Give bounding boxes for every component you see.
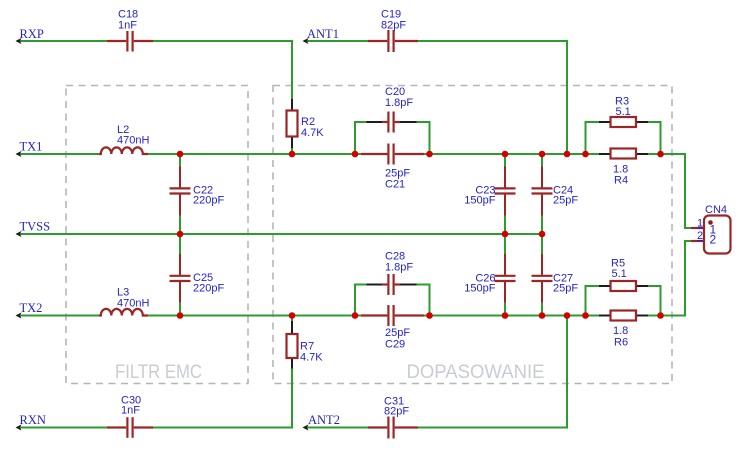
connector CN4 xyxy=(691,216,731,254)
dashed box FILTR EMC xyxy=(66,86,248,384)
net label ANT1 xyxy=(307,27,339,41)
svg-text:DOPASOWANIE: DOPASOWANIE xyxy=(407,362,545,383)
net arrow TVSS xyxy=(16,231,22,237)
svg-text:2: 2 xyxy=(710,233,717,247)
capacitor C24 xyxy=(532,167,553,216)
capacitor C18 xyxy=(107,31,153,52)
svg-text:FILTR EMC: FILTR EMC xyxy=(115,362,202,383)
label C25 value xyxy=(193,272,224,295)
svg-text:1.8: 1.8 xyxy=(613,325,628,337)
svg-text:4.7K: 4.7K xyxy=(301,127,324,139)
net arrow RXN xyxy=(16,424,22,430)
junction TX1 at C23 xyxy=(502,151,509,158)
net label TX2 xyxy=(20,301,43,315)
label C19 value xyxy=(381,9,406,32)
label C21 value xyxy=(385,168,410,191)
svg-text:150pF: 150pF xyxy=(464,283,495,295)
junction TX1 at ANT1 xyxy=(564,151,571,158)
svg-text:TX2: TX2 xyxy=(20,301,43,315)
wire R5 branch xyxy=(586,286,661,316)
junction TX1 at R3 R4 left xyxy=(582,151,589,158)
label C26 value xyxy=(464,273,495,295)
label C24 value xyxy=(553,185,578,207)
wire TVSS rail xyxy=(17,233,542,235)
wire RXN to R7 vertical xyxy=(291,316,293,429)
label L2 value xyxy=(117,124,149,147)
junction TX1 at C22 xyxy=(177,151,184,158)
net label ANT2 xyxy=(308,413,340,427)
svg-text:82pF: 82pF xyxy=(381,20,406,32)
label C27 value xyxy=(553,273,578,295)
label FILTR EMC xyxy=(115,362,202,383)
label C22 value xyxy=(193,185,224,207)
wire ANT2 horizontal xyxy=(304,427,568,429)
junction TX2 at C28 loop left xyxy=(352,312,359,319)
svg-text:82pF: 82pF xyxy=(384,406,409,418)
capacitor C25 xyxy=(170,254,191,303)
wire TX2 node to CN4 pin 2 xyxy=(661,241,693,316)
label C30 value xyxy=(121,395,141,417)
wire RXP horizontal xyxy=(17,40,293,42)
label R3 value xyxy=(615,96,631,119)
label C28 value xyxy=(385,251,413,274)
label L3 value xyxy=(117,286,149,309)
svg-text:RXP: RXP xyxy=(20,27,44,41)
dashed box DOPASOWANIE xyxy=(273,86,672,384)
wire TX2 rail xyxy=(17,315,661,317)
net arrow ANT1 xyxy=(303,38,309,44)
wire ANT2 up to TX2 xyxy=(566,316,568,429)
capacitor C19 xyxy=(368,30,418,52)
svg-text:150pF: 150pF xyxy=(464,195,495,207)
label R7 value xyxy=(300,341,323,364)
junction TX2 at R5 R6 right xyxy=(657,312,664,319)
svg-text:TX1: TX1 xyxy=(20,140,43,154)
junction TX2 at C25 xyxy=(177,312,184,319)
resistor R4 xyxy=(599,149,648,159)
wire TX1 node to CN4 pin 1 xyxy=(661,154,693,228)
resistor R6 xyxy=(599,311,648,321)
label R2 value xyxy=(301,116,324,139)
label C29 value xyxy=(385,327,410,351)
junction TX1 at R3 R4 right xyxy=(657,151,664,158)
svg-text:470nH: 470nH xyxy=(117,297,149,309)
junction TX2 at C27 xyxy=(539,312,546,319)
label R6 value xyxy=(613,325,628,349)
svg-text:2: 2 xyxy=(697,230,703,242)
svg-text:25pF: 25pF xyxy=(385,327,410,339)
capacitor C22 xyxy=(170,167,191,216)
junction TX1 at C20 loop left xyxy=(352,151,359,158)
svg-text:RXN: RXN xyxy=(20,413,46,427)
junction TX2 at ANT2 xyxy=(564,312,571,319)
capacitor C23 xyxy=(495,167,516,216)
junction TVSS at C22 xyxy=(177,231,184,238)
capacitor C20 xyxy=(367,112,417,133)
svg-text:5.1: 5.1 xyxy=(616,106,631,118)
svg-text:C29: C29 xyxy=(385,339,405,351)
junction TX2 at C28 loop right xyxy=(426,312,433,319)
label C18 value xyxy=(118,9,138,32)
net arrow TX2 xyxy=(16,312,22,318)
capacitor C30 xyxy=(107,417,153,438)
pin name 2 inside CN4 xyxy=(710,233,717,247)
resistor R3 xyxy=(599,117,648,127)
wire column C22 C25 xyxy=(179,154,181,316)
wire column C23 C26 xyxy=(504,154,506,316)
wire ANT1 horizontal xyxy=(304,40,568,42)
capacitor C28 xyxy=(367,274,417,295)
wire ANT1 down to TX1 xyxy=(566,40,568,154)
svg-text:5.1: 5.1 xyxy=(612,268,627,280)
inductor L3 xyxy=(99,309,148,316)
resistor R7 xyxy=(287,321,298,369)
pin number 1 outside CN4 xyxy=(697,218,703,230)
net label TVSS xyxy=(20,220,51,234)
wire column C24 C27 xyxy=(541,154,543,316)
junction TVSS at C23 xyxy=(502,231,509,238)
svg-text:25pF: 25pF xyxy=(553,283,578,295)
label DOPASOWANIE xyxy=(407,362,545,383)
svg-text:1.8pF: 1.8pF xyxy=(385,262,413,274)
resistor R2 xyxy=(287,99,298,148)
net label RXN xyxy=(20,413,46,427)
wire RXP to R2 vertical xyxy=(291,40,293,154)
junction TX2 at R7 xyxy=(289,312,296,319)
label CN4 xyxy=(705,204,727,216)
svg-text:4.7K: 4.7K xyxy=(300,352,323,364)
wire RXN horizontal xyxy=(17,427,293,429)
resistor R5 xyxy=(599,281,648,291)
junction TVSS at C24 xyxy=(539,231,546,238)
svg-text:C21: C21 xyxy=(385,179,405,191)
svg-text:1.8pF: 1.8pF xyxy=(385,97,413,109)
capacitor C31 xyxy=(368,417,418,439)
wire R3 branch xyxy=(586,122,661,154)
svg-text:R6: R6 xyxy=(614,337,628,349)
pin number 2 outside CN4 xyxy=(697,230,703,242)
capacitor C21 inline TX1 xyxy=(361,144,424,165)
junction TX2 at R5 R6 left xyxy=(582,312,589,319)
svg-text:1nF: 1nF xyxy=(118,20,137,32)
junction TX2 at C26 xyxy=(502,312,509,319)
net arrow RXP xyxy=(16,38,22,44)
svg-text:ANT2: ANT2 xyxy=(308,413,340,427)
wire TX1 rail xyxy=(17,153,661,155)
svg-text:ANT1: ANT1 xyxy=(307,27,339,41)
svg-text:220pF: 220pF xyxy=(193,283,224,295)
svg-text:220pF: 220pF xyxy=(193,195,224,207)
capacitor C26 xyxy=(495,254,516,303)
svg-text:TVSS: TVSS xyxy=(20,220,51,234)
wire C28 bypass loop xyxy=(355,285,430,316)
label C23 value xyxy=(464,185,495,207)
label C20 value xyxy=(385,86,413,109)
net label RXP xyxy=(20,27,44,41)
junction TX1 at C24 xyxy=(539,151,546,158)
svg-text:1nF: 1nF xyxy=(121,405,140,417)
label R4 value xyxy=(613,164,628,187)
junction TX1 at C20 loop right xyxy=(426,151,433,158)
net arrow TX1 xyxy=(16,151,22,157)
wire C20 bypass loop xyxy=(355,122,430,154)
capacitor C27 xyxy=(532,254,553,303)
svg-text:R4: R4 xyxy=(614,175,628,187)
svg-text:CN4: CN4 xyxy=(705,204,727,216)
svg-text:25pF: 25pF xyxy=(553,195,578,207)
label C31 value xyxy=(384,396,409,418)
net label TX1 xyxy=(20,140,43,154)
net arrow ANT2 xyxy=(303,424,309,430)
label R5 value xyxy=(611,258,627,281)
svg-text:1: 1 xyxy=(697,218,703,230)
inductor L2 xyxy=(99,147,148,154)
junction TX1 at R2 xyxy=(289,151,296,158)
svg-text:470nH: 470nH xyxy=(117,135,149,147)
capacitor C29 inline TX2 xyxy=(361,305,424,326)
pin name 1 inside CN4 xyxy=(710,223,717,237)
